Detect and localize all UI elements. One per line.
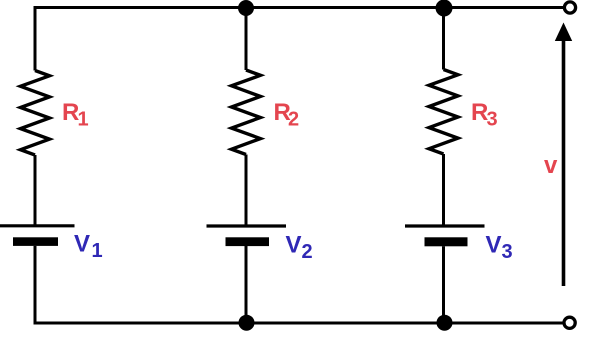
svg-text:2: 2 <box>302 241 313 263</box>
svg-text:V: V <box>74 231 90 258</box>
wire top rail <box>34 6 565 9</box>
svg-text:3: 3 <box>487 109 498 131</box>
svg-text:1: 1 <box>78 109 89 131</box>
node junction bottom branch 2 <box>239 315 255 331</box>
label V3 <box>486 231 513 262</box>
svg-text:1: 1 <box>92 240 103 262</box>
label V1 <box>74 231 103 263</box>
label R3 <box>471 99 498 131</box>
resistor R2 <box>232 70 261 155</box>
terminal bottom-right open circle <box>564 317 575 328</box>
wire branch 2 upper segment <box>245 8 248 70</box>
wire branch 3 lower segment <box>442 246 445 323</box>
wire branch 1 lower segment <box>34 246 37 323</box>
svg-text:3: 3 <box>502 241 513 263</box>
svg-text:V: V <box>286 232 302 259</box>
label R1 <box>62 99 89 131</box>
node junction top branch 3 <box>436 0 453 17</box>
wire branch 1 middle segment <box>34 155 37 226</box>
node junction bottom branch 3 <box>437 315 453 331</box>
wire branch 3 upper segment <box>442 8 445 70</box>
wire branch 3 middle segment <box>442 154 445 226</box>
battery V3 <box>405 226 485 246</box>
arrow v (voltage reference arrow) <box>555 23 572 287</box>
battery V1 <box>0 226 75 246</box>
svg-text:v: v <box>544 152 558 179</box>
battery V2 <box>207 226 287 246</box>
node junction top branch 2 <box>238 0 254 16</box>
terminal top-right open circle <box>564 2 575 13</box>
label R2 <box>274 99 300 131</box>
label V2 <box>286 232 313 263</box>
label v <box>544 152 558 179</box>
wire bottom rail <box>34 322 564 325</box>
svg-text:2: 2 <box>288 109 299 131</box>
wire branch 2 middle segment <box>245 155 248 227</box>
svg-text:V: V <box>486 231 502 258</box>
resistor R3 <box>429 70 458 155</box>
wire branch 2 lower segment <box>245 246 248 323</box>
resistor R1 <box>21 71 50 156</box>
wire branch 1 upper segment <box>34 6 37 71</box>
